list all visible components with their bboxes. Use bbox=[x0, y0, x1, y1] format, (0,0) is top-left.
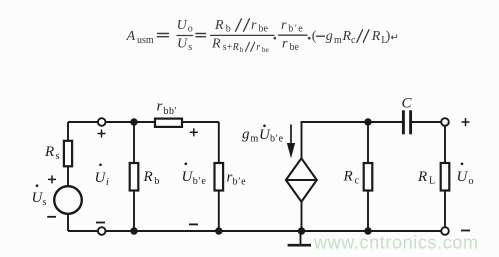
label Rs bbox=[44, 144, 60, 162]
wire Rc branch bbox=[367, 122, 369, 163]
svg-text:be: be bbox=[262, 45, 270, 54]
ground bbox=[288, 231, 311, 245]
svg-text:R: R bbox=[232, 42, 239, 53]
svg-text:b′e: b′e bbox=[288, 24, 304, 35]
node Rb bottom bbox=[130, 227, 137, 234]
svg-text:o: o bbox=[469, 176, 474, 187]
svg-text:m: m bbox=[334, 35, 342, 46]
svg-text:usm: usm bbox=[137, 35, 154, 46]
svg-text:C: C bbox=[402, 96, 413, 112]
minus sign Us bbox=[47, 216, 56, 218]
svg-text:U: U bbox=[177, 18, 188, 33]
svg-text:b′e: b′e bbox=[193, 176, 207, 187]
wire bottom rail bbox=[68, 230, 442, 232]
svg-text:s+: s+ bbox=[223, 42, 233, 53]
label Rb bbox=[143, 169, 160, 187]
svg-text:s: s bbox=[188, 42, 192, 53]
label Us bbox=[32, 184, 47, 208]
node Rc bottom bbox=[364, 227, 371, 234]
svg-text:r: r bbox=[256, 42, 260, 53]
wire top from rbb' to rb'e branch bbox=[182, 121, 219, 123]
controlled current source gmUb'e (diamond) bbox=[286, 158, 317, 201]
svg-text:R: R bbox=[211, 37, 221, 52]
svg-text:g: g bbox=[242, 127, 250, 143]
minus sign Ub'e bbox=[189, 223, 198, 225]
svg-text:U: U bbox=[182, 169, 194, 185]
svg-text:A: A bbox=[126, 29, 136, 44]
label Ub'e bbox=[182, 163, 207, 188]
resistor RL bbox=[441, 163, 450, 191]
current direction arrow bbox=[288, 125, 295, 157]
wire controlled-source branch top corner bbox=[302, 122, 403, 159]
svg-text:b′e: b′e bbox=[270, 134, 284, 145]
node source bottom / ground node bbox=[298, 227, 305, 234]
svg-text:o: o bbox=[188, 23, 193, 34]
svg-text:g: g bbox=[326, 29, 333, 44]
svg-text:bb′: bb′ bbox=[164, 106, 178, 117]
resistor Rb bbox=[130, 163, 139, 191]
label gmUb'e bbox=[242, 125, 284, 145]
svg-text:b: b bbox=[240, 45, 244, 54]
node Rb top bbox=[130, 118, 137, 125]
resistor rbb' bbox=[155, 119, 182, 127]
label Ui bbox=[95, 164, 110, 189]
svg-text:R: R bbox=[214, 18, 224, 33]
svg-text:m: m bbox=[251, 134, 259, 145]
resistor Rs bbox=[64, 141, 72, 167]
terminal input bottom bbox=[98, 227, 106, 235]
label Rc bbox=[343, 169, 360, 187]
svg-text:s: s bbox=[56, 151, 60, 162]
terminal output bottom bbox=[441, 227, 449, 235]
formula Ausm = Uo/Us = (Rb//rbe)/(Rs+Rb//rbe) * rb'e/rbe * (-gmRc//RL) bbox=[126, 18, 399, 54]
svg-text:s: s bbox=[43, 197, 47, 208]
svg-text:r: r bbox=[157, 99, 163, 115]
terminal input top bbox=[98, 118, 106, 126]
plus sign Us bbox=[48, 175, 56, 183]
wire Rb branch bbox=[133, 122, 135, 163]
svg-text:be: be bbox=[259, 24, 269, 35]
svg-text:r: r bbox=[282, 37, 288, 52]
wire RL branch bbox=[444, 126, 446, 164]
svg-text:R: R bbox=[343, 169, 353, 185]
wire Rs to Us source bbox=[67, 166, 69, 187]
svg-text:b′e: b′e bbox=[233, 176, 247, 187]
minus sign output bottom bbox=[461, 230, 470, 232]
svg-text:r: r bbox=[281, 18, 287, 33]
wire controlled-source to bottom rail bbox=[301, 202, 303, 232]
svg-text:www.cntronics.com: www.cntronics.com bbox=[313, 233, 478, 253]
label RL bbox=[417, 169, 435, 187]
svg-text:U: U bbox=[177, 37, 188, 52]
wire top-left from Rs branch to rbb' bbox=[68, 121, 155, 123]
node Rc top bbox=[364, 118, 371, 125]
svg-text:r: r bbox=[251, 18, 257, 33]
svg-text:R: R bbox=[342, 29, 352, 44]
resistor rb'e bbox=[215, 163, 224, 191]
voltage source Us bbox=[54, 186, 82, 214]
svg-text:b: b bbox=[226, 24, 231, 35]
plus sign Ub'e bbox=[190, 128, 198, 136]
svg-text:b: b bbox=[155, 176, 160, 187]
label Uo bbox=[457, 163, 474, 188]
svg-text:R: R bbox=[44, 144, 54, 160]
wire Us to bottom rail bbox=[67, 214, 69, 232]
plus sign input top bbox=[98, 130, 106, 138]
wire left branch upper (Rs lead) bbox=[67, 122, 69, 141]
svg-text:c: c bbox=[351, 35, 356, 46]
svg-text:L: L bbox=[429, 176, 435, 187]
svg-text:R: R bbox=[143, 169, 153, 185]
svg-text:i: i bbox=[106, 177, 109, 188]
node rb'e bottom bbox=[215, 227, 222, 234]
terminal output top bbox=[441, 118, 449, 126]
svg-text:U: U bbox=[457, 169, 469, 185]
resistor Rc bbox=[364, 163, 373, 191]
label rb'e bbox=[227, 170, 247, 188]
minus sign input bottom bbox=[96, 222, 105, 224]
svg-text:R: R bbox=[371, 29, 381, 44]
wire rb'e branch bbox=[218, 122, 220, 163]
wire capacitor to RL terminal bbox=[412, 121, 442, 123]
svg-text:c: c bbox=[355, 175, 360, 186]
svg-text:R: R bbox=[417, 169, 427, 185]
capacitor C plates bbox=[403, 110, 410, 134]
svg-text:be: be bbox=[290, 42, 300, 53]
label rbb' bbox=[157, 99, 178, 117]
svg-text:↵: ↵ bbox=[391, 33, 399, 44]
svg-text:U: U bbox=[95, 170, 107, 186]
plus sign output top bbox=[462, 118, 470, 126]
